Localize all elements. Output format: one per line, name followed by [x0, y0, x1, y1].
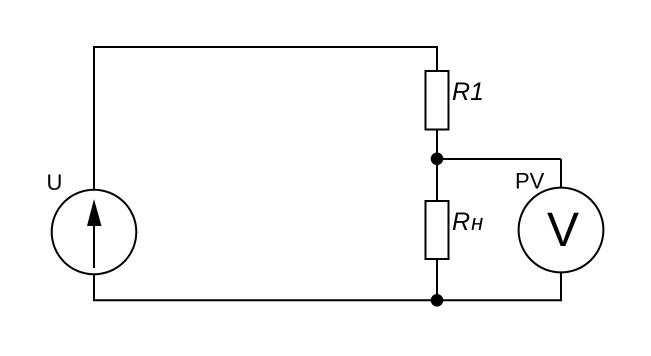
wire top rail down to R1	[436, 47, 438, 71]
svg-text:PV: PV	[515, 168, 545, 193]
wire Rн bottom to node B	[436, 260, 438, 300]
svg-text:U: U	[47, 170, 63, 195]
voltage source U (circle)	[52, 190, 137, 275]
wire R1 bottom to node A	[436, 130, 438, 159]
node B junction dot	[431, 294, 444, 307]
wire node A to voltmeter branch (horizontal)	[437, 158, 561, 160]
svg-text:V: V	[547, 204, 579, 257]
wire node A to Rн top	[436, 159, 438, 200]
voltage source arrow head	[87, 199, 102, 226]
voltage source arrow shaft	[93, 210, 95, 268]
resistor R1	[426, 71, 449, 130]
svg-text:R1: R1	[452, 78, 484, 106]
wire bottom rail	[93, 299, 562, 301]
svg-text:Rн: Rн	[452, 208, 483, 236]
wire top rail	[93, 46, 438, 48]
resistor Rн	[426, 201, 449, 259]
node A junction dot	[431, 153, 444, 166]
wire source bottom to bottom rail	[93, 274, 95, 301]
voltmeter PV (circle)	[519, 188, 604, 273]
wire voltmeter bottom to bottom rail	[560, 273, 562, 301]
wire voltmeter branch vertical down to PV	[560, 159, 562, 188]
wire left vertical (source top to top rail)	[93, 47, 95, 190]
